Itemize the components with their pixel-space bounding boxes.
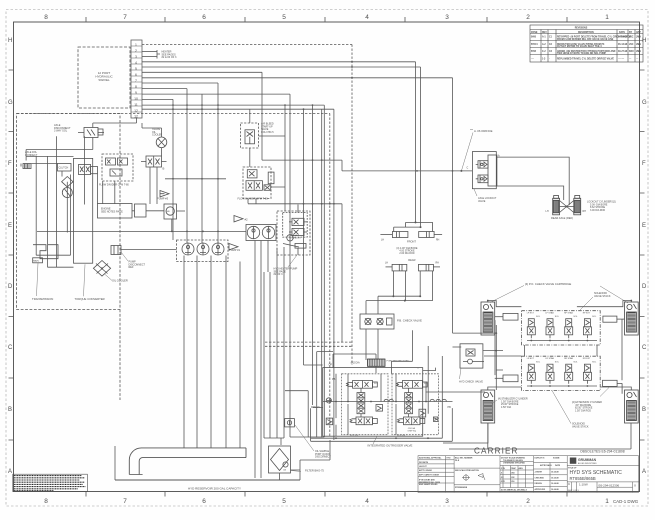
svg-text:LR EXT: LR EXT <box>527 358 535 360</box>
outrigger bus dots <box>335 401 427 403</box>
svg-text:B: B <box>642 407 646 413</box>
svg-text:1/16: 1/16 <box>511 481 515 483</box>
svg-text:TORQUE CONVERTER: TORQUE CONVERTER <box>75 297 105 301</box>
dashed vertical extension below transmission box <box>119 310 121 401</box>
label heater see pages <box>162 51 177 60</box>
lockout check lower <box>476 175 488 183</box>
wire port13 bus <box>142 108 334 110</box>
axle disconnect 3 way sol valve V1 <box>78 128 104 138</box>
trans oil cooler circle detail <box>158 139 165 147</box>
label extension cylinder note <box>572 401 602 407</box>
svg-text:FILTER BHO-75: FILTER BHO-75 <box>305 468 324 472</box>
wire flow divider gpm connections <box>248 187 285 204</box>
wire outrigger bottom rail <box>311 356 453 441</box>
wire rear cyl to pb check <box>366 296 393 314</box>
outrigger spool valve right vertical <box>405 393 413 414</box>
title block small text left <box>419 457 577 492</box>
notes block bottom left <box>13 474 88 491</box>
label stabilizer cylinder note <box>498 398 528 409</box>
grid letters right <box>642 38 647 475</box>
svg-text:RT855B/865B: RT855B/865B <box>455 487 468 489</box>
reservoir left wall <box>114 446 116 480</box>
leader stabilizer <box>491 400 497 404</box>
hyd heater pump dashed box <box>277 211 310 255</box>
leader axle lockout <box>474 189 477 196</box>
wire port10 bus <box>142 93 290 95</box>
outrigger top valve right <box>397 381 428 389</box>
label oil sample port quick disconnect <box>315 450 331 459</box>
svg-text:X: X <box>634 483 636 487</box>
svg-text:E: E <box>642 223 646 229</box>
wire stack top corners <box>488 301 632 307</box>
svg-text:2: 2 <box>135 49 137 53</box>
junction dots row y203.4 <box>303 203 335 205</box>
svg-text:09-27-96: 09-27-96 <box>618 51 628 53</box>
front cylinder RH <box>419 232 442 238</box>
filter box <box>269 446 291 473</box>
svg-text:1: 1 <box>605 14 609 21</box>
solenoid valve stack bottom box <box>521 356 600 390</box>
stack bottom bus <box>527 385 597 387</box>
svg-text:COOLER: COOLER <box>152 134 162 137</box>
pump1 circle a <box>182 243 194 255</box>
lockout check upper <box>476 161 488 168</box>
svg-text:--------: -------- <box>618 58 624 60</box>
transmission internals stepped outline <box>33 245 58 263</box>
outrigger bottom valve right <box>398 417 425 425</box>
svg-text:TRANSMISSION: TRANSMISSION <box>32 297 53 301</box>
label pump disconnect ref <box>129 261 146 270</box>
svg-text:6: 6 <box>135 73 137 77</box>
wire filter feed <box>280 438 282 445</box>
wire x496.3 vertical <box>495 325 497 390</box>
wire port1 dashed bus <box>142 44 352 46</box>
svg-text:RH: RH <box>436 240 440 242</box>
leader hyd check <box>460 368 462 379</box>
stack bottom cartridge 2 <box>546 364 554 383</box>
svg-text:BY: BY <box>629 32 633 34</box>
wire bundle drop x285 <box>284 105 286 211</box>
wire port4 bus <box>142 61 416 63</box>
leader hyd heater pump <box>288 255 297 267</box>
svg-text:HYD RESERVOIR 200 GAL CAPACITY: HYD RESERVOIR 200 GAL CAPACITY <box>188 487 241 491</box>
svg-text:HYD CHECK VALVE: HYD CHECK VALVE <box>459 380 483 384</box>
a-r bleed valve <box>245 130 255 144</box>
svg-text:11: 11 <box>134 103 138 107</box>
front cylinder LH <box>380 232 408 238</box>
axle lockout valve inner box <box>488 155 497 186</box>
svg-text:VALVE STACK: VALVE STACK <box>594 295 611 298</box>
svg-text:SHT 1 OF 3: SHT 1 OF 3 <box>568 490 580 492</box>
svg-text:LH: LH <box>381 240 384 242</box>
wire pumps suction lines <box>184 256 240 449</box>
svg-text:PB: PB <box>332 378 336 381</box>
wire rear collect lower <box>366 300 433 302</box>
wire valve B2 down <box>150 167 157 204</box>
svg-text:FRONT: FRONT <box>407 240 416 244</box>
svg-text:8: 8 <box>135 85 137 89</box>
svg-text:7: 7 <box>123 498 127 505</box>
svg-text:RF EXT: RF EXT <box>583 313 591 315</box>
junction dot orifice <box>460 170 462 172</box>
junction dots tee <box>415 221 422 228</box>
valve B2 <box>141 156 167 167</box>
svg-text:2: 2 <box>526 14 530 21</box>
svg-text:LF STAB: LF STAB <box>545 312 554 315</box>
svg-text:6: 6 <box>202 498 206 505</box>
svg-text:P.B. CHECK VALVE: P.B. CHECK VALVE <box>397 319 422 323</box>
axle lockout valve outer box <box>472 152 496 189</box>
svg-text:DESCRIPTION: DESCRIPTION <box>578 32 594 34</box>
suction elbow inner <box>139 458 200 475</box>
svg-text:LR STAB: LR STAB <box>545 357 554 360</box>
wire drop x342 to outrigger <box>341 204 343 342</box>
svg-text:OBSOLETES E6-294-011808: OBSOLETES E6-294-011808 <box>580 450 625 454</box>
pump circle left detail <box>65 188 71 198</box>
svg-text:PUMP #1: PUMP #1 <box>229 248 241 252</box>
label front cylinder note <box>396 247 417 255</box>
pump1 triangle <box>229 244 238 250</box>
front axle cylinder feed tee <box>394 222 433 231</box>
junction dot rear axle <box>566 206 568 208</box>
svg-text:4: 4 <box>365 14 369 21</box>
wire restrictor drop <box>333 354 376 373</box>
svg-text:12: 12 <box>134 109 138 113</box>
integrated outrigger valve outer box <box>323 368 423 437</box>
svg-text:1: 1 <box>135 43 137 47</box>
po check cartridge top-left <box>481 302 495 335</box>
wire port3 to heater <box>142 56 157 58</box>
grid numbers top <box>44 14 609 21</box>
svg-text:7: 7 <box>135 79 137 83</box>
leader po check top right <box>600 286 628 303</box>
pump2 circle a <box>247 226 259 238</box>
torque converter outline <box>74 158 93 263</box>
wire port6 bus <box>142 71 262 73</box>
svg-text:04-04-96: 04-04-96 <box>618 36 628 39</box>
wire heater area drops <box>264 241 284 439</box>
hyd check valve box <box>460 344 483 368</box>
wire horizontal join y438 <box>264 437 324 438</box>
grid numbers bottom <box>44 498 609 505</box>
outrigger relief mid <box>376 405 383 412</box>
stack top cartridge 3 <box>565 319 573 338</box>
svg-text:KDC: KDC <box>629 51 634 53</box>
label axle dis-connect <box>25 151 38 157</box>
wire dashed bus y114.7 <box>17 113 330 115</box>
wire port13 drop right <box>333 109 335 440</box>
svg-text:LF EXT: LF EXT <box>527 313 535 315</box>
wire dashed pair into outrigger <box>265 342 352 346</box>
rear cylinder RH <box>419 264 441 271</box>
wire stack bottom corners <box>488 387 632 390</box>
svg-text:HYD: HYD <box>447 458 452 460</box>
svg-text:STAND-BY: STAND-BY <box>290 237 301 240</box>
12 port hydraulic swivel label <box>95 71 113 82</box>
wire lockout lower port to rear cyl <box>497 186 564 200</box>
wire cooler to tank <box>101 275 103 277</box>
stack top bus dots <box>530 340 588 342</box>
svg-text:3: 3 <box>135 55 137 59</box>
wire swivel strip bottom drop <box>93 118 137 128</box>
wire three returns x73-96 <box>98 174 115 204</box>
label see hli standby <box>290 235 301 240</box>
junction dots on port buses <box>172 61 353 110</box>
stack top right port rect <box>603 316 625 322</box>
stack top port labels <box>527 312 597 318</box>
pump2 triangle <box>234 216 243 222</box>
svg-text:.XXX: .XXX <box>501 481 506 483</box>
pump1 circle c <box>212 243 224 255</box>
label lockout cylinders note <box>587 201 616 212</box>
svg-text:INTEGRATED OUTRIGGER VALVE: INTEGRATED OUTRIGGER VALVE <box>368 444 413 448</box>
svg-text:RH: RH <box>583 210 587 213</box>
svg-text:REVISIONS: REVISIONS <box>575 27 588 29</box>
solenoid valve stack top box <box>521 311 600 345</box>
wire port10 drop <box>202 94 290 437</box>
svg-text:FLOW DIVIDER CFM T-80: FLOW DIVIDER CFM T-80 <box>99 184 129 187</box>
svg-text:6: 6 <box>202 14 206 21</box>
stack bottom port labels <box>527 357 597 363</box>
label SOL tags <box>350 383 429 437</box>
border tick marks right <box>640 70 645 440</box>
svg-text:TIED HOSE AT NOTE TO ENG NO SO: TIED HOSE AT NOTE TO ENG NO SOL PUMP <box>557 52 606 55</box>
label solenoid valve stack top <box>594 292 611 298</box>
label axle lockout valve <box>478 197 497 203</box>
outrigger internal bus <box>323 401 453 403</box>
svg-text:OTHERWISE SPECIFIED: OTHERWISE SPECIFIED <box>503 463 526 465</box>
wire bundle drop x312.5 <box>312 105 314 405</box>
svg-text:3 WAY SOL: 3 WAY SOL <box>54 130 68 133</box>
pump circle left <box>62 188 72 198</box>
reservoir right wall <box>299 460 301 480</box>
svg-text:B4/8: B4/8 <box>531 36 537 39</box>
svg-text:----: ---- <box>531 58 534 60</box>
svg-text:C: C <box>467 167 469 170</box>
svg-text:9: 9 <box>135 91 137 95</box>
wire lockout feed y170.3 <box>342 170 472 172</box>
svg-text:F: F <box>642 161 646 167</box>
outrigger bottom valve left <box>350 417 377 425</box>
flow divider gpm internals <box>246 170 274 191</box>
svg-text:10-04-88: 10-04-88 <box>551 476 559 479</box>
svg-text:D: D <box>8 284 13 290</box>
svg-text:CB: CB <box>283 470 287 472</box>
svg-text:HYD SYS SCHEMATIC: HYD SYS SCHEMATIC <box>570 470 623 476</box>
wire main bus y231.4 <box>37 230 246 232</box>
wire port12 drop right <box>323 105 325 437</box>
svg-text:10: 10 <box>134 97 138 101</box>
stack bottom right port rect <box>603 380 623 393</box>
svg-text:H: H <box>642 38 646 44</box>
svg-text:GRUMMAN: GRUMMAN <box>578 458 597 462</box>
pump drive circle <box>166 207 174 215</box>
leader oil sample <box>295 425 314 451</box>
svg-text:APP'D / ENGR: APP'D / ENGR <box>419 469 432 472</box>
stack top bottom bus <box>527 340 597 342</box>
stack top cartridge 1 <box>527 319 535 338</box>
wire port9 drop <box>186 89 188 243</box>
svg-text:CHECKED: CHECKED <box>535 477 545 479</box>
svg-text:2.00 DIA ROD: 2.00 DIA ROD <box>399 252 414 255</box>
pump disconnect detail <box>114 246 118 255</box>
suction manifold cap right <box>200 448 246 458</box>
svg-text:PRESS: PRESS <box>311 405 320 409</box>
svg-text:MAIN: MAIN <box>33 260 39 263</box>
label a-r bleed start-up valve <box>261 123 274 134</box>
po check cartridge bottom-right <box>625 390 639 423</box>
svg-text:8: 8 <box>44 14 48 21</box>
flow divider internals <box>106 158 128 176</box>
wire connector y203.8 <box>248 203 342 205</box>
svg-text:B: B <box>8 407 12 413</box>
svg-text:FRAC: FRAC <box>511 467 517 470</box>
wire port12 bus <box>142 104 324 106</box>
wire port5 bus <box>142 66 421 68</box>
svg-text:TITLE OF: TITLE OF <box>568 468 577 470</box>
wire L feed x316.7 <box>317 352 333 438</box>
svg-text:OP: OP <box>329 364 333 367</box>
flow divider gpm dashed box <box>243 167 271 199</box>
wire pump3 drop <box>171 219 173 231</box>
svg-text:JSC: JSC <box>629 44 634 46</box>
rear axle cross links <box>560 201 574 213</box>
svg-text:DUPLET IS: DUPLET IS <box>535 458 546 460</box>
outrigger inner dashed column right <box>392 374 438 435</box>
stack bottom cartridge 1 <box>527 364 535 383</box>
svg-text:A: A <box>8 469 12 475</box>
wire outrigger feeds left <box>304 354 334 408</box>
svg-text:VALVE STACK: VALVE STACK <box>572 425 589 428</box>
wire port11 drop <box>172 99 174 240</box>
svg-text:5: 5 <box>282 14 286 21</box>
svg-text:C: C <box>8 345 13 351</box>
wire left verticals x45 x56 <box>36 136 70 267</box>
rear axle lockout cylinder left <box>553 196 560 215</box>
svg-text:FLOW DIVIDER GPM T-80: FLOW DIVIDER GPM T-80 <box>238 197 269 200</box>
wire stack crossovers <box>426 392 631 449</box>
svg-text:JMH: JMH <box>636 51 641 53</box>
oil sample quick disconnect <box>285 419 295 427</box>
svg-text:B7/8: B7/8 <box>531 51 537 53</box>
leader solenoid stack top <box>580 297 593 310</box>
wire filter bottom to tank <box>279 473 281 480</box>
svg-text:PB: PB <box>448 406 452 409</box>
svg-text:A: A <box>642 469 646 475</box>
engine box <box>98 204 133 219</box>
junction dots outrigger bottom <box>335 437 429 439</box>
svg-text:ZONE: ZONE <box>531 32 538 34</box>
svg-text:.062 DIA: .062 DIA <box>350 362 360 365</box>
svg-text:OIL COOLER: OIL COOLER <box>112 279 128 283</box>
title block Grumman logo <box>570 458 597 466</box>
suction elbow outer <box>129 448 200 475</box>
svg-text:ADDITIONAL APPROVAL: ADDITIONAL APPROVAL <box>419 457 442 460</box>
outrigger bus crossover arcs <box>384 399 446 401</box>
trans oil cooler circle <box>156 137 167 148</box>
wire pump disconnect to pumps <box>121 249 177 251</box>
wire port7 drop long <box>452 78 454 333</box>
title block <box>418 456 640 493</box>
svg-text:ORIF SQ: ORIF SQ <box>408 430 417 432</box>
revision table <box>530 25 643 62</box>
suction elbow end cap <box>129 474 142 476</box>
valve B1 with cross <box>79 165 98 175</box>
svg-text:F: F <box>8 161 12 167</box>
label SS DIA note <box>408 427 417 432</box>
svg-text:1: 1 <box>605 498 609 505</box>
svg-text:PUMP #3: PUMP #3 <box>157 196 169 200</box>
svg-text:ALLIED INDUSTRIES: ALLIED INDUSTRIES <box>578 462 597 465</box>
heater pump internals <box>283 205 308 256</box>
wire stacks feed from left <box>453 332 497 334</box>
flow divider dashed box left <box>102 154 133 181</box>
pump drive box <box>164 204 177 219</box>
wire axle valve left <box>26 138 93 161</box>
svg-text:---: --- <box>636 58 639 60</box>
svg-text:COL FHD-5: COL FHD-5 <box>261 131 274 134</box>
wire connector y178.8 <box>165 178 226 180</box>
wire port8 bus <box>142 82 218 84</box>
svg-text:4.50" DIA: 4.50" DIA <box>501 406 512 409</box>
svg-text:DR SMITH: DR SMITH <box>419 462 429 464</box>
wire valve column x86 <box>84 136 86 204</box>
clutch box <box>58 164 72 172</box>
svg-text:REAR: REAR <box>408 258 415 262</box>
leader torque converter <box>84 264 86 296</box>
wire bundle drop x321.7 <box>321 109 323 203</box>
stack top cartridge 4 <box>583 319 591 338</box>
svg-text:DATE: DATE <box>555 464 561 467</box>
wire port11 bus <box>142 98 173 100</box>
svg-text:FROM FLOW DIVIDER REL OFF VALV: FROM FLOW DIVIDER REL OFF VALVE VALVE LI… <box>557 38 614 41</box>
a-r bleed dashed box <box>241 123 259 148</box>
svg-text:#2 & #3 OF 3: #2 & #3 OF 3 <box>162 56 177 59</box>
svg-text:APPROVED: APPROVED <box>535 488 546 491</box>
svg-text:REPLUMBED TRAVEL CYL DELETE O: REPLUMBED TRAVEL CYL DELETE ORIFICE VALV… <box>557 57 614 60</box>
wire filter right out <box>291 469 301 471</box>
wire pump drive to pumps <box>177 210 186 212</box>
svg-text:B7/C4: B7/C4 <box>531 43 538 46</box>
swivel port numbers <box>134 43 138 119</box>
pump disconnect box <box>111 246 121 255</box>
svg-text:APPROVALS: APPROVALS <box>540 464 552 467</box>
junction dots rear collect <box>392 295 421 301</box>
wire bus y160 <box>262 159 342 161</box>
svg-text:REF: REF <box>129 266 134 269</box>
svg-text:1.50" DIA ROD: 1.50" DIA ROD <box>575 409 591 412</box>
svg-text:SEE NOTES PAGE: SEE NOTES PAGE <box>101 211 123 214</box>
oil cooler dot <box>101 267 103 269</box>
svg-text:4: 4 <box>135 61 137 65</box>
leader orifice <box>461 130 473 171</box>
outrigger relief left box <box>326 418 333 425</box>
pb check valve box <box>360 314 394 329</box>
leader pump disconnect <box>121 252 128 261</box>
leader filter <box>291 471 301 472</box>
junction dots y178.8 <box>172 178 219 180</box>
label solenoid valve stack bottom <box>572 423 589 429</box>
wire rear cylinder drops <box>393 271 432 301</box>
svg-text:G: G <box>8 100 13 106</box>
heater bracket <box>157 50 160 59</box>
svg-text:S/250B: S/250B <box>553 458 560 460</box>
svg-text:1/32: 1/32 <box>511 477 515 479</box>
stack top cartridge 2 <box>546 319 554 338</box>
svg-text:SEE SCALE PRECAUTION: SEE SCALE PRECAUTION <box>455 469 479 472</box>
svg-text:5: 5 <box>135 67 137 71</box>
wire lockout port A to rear cyl <box>497 157 569 205</box>
